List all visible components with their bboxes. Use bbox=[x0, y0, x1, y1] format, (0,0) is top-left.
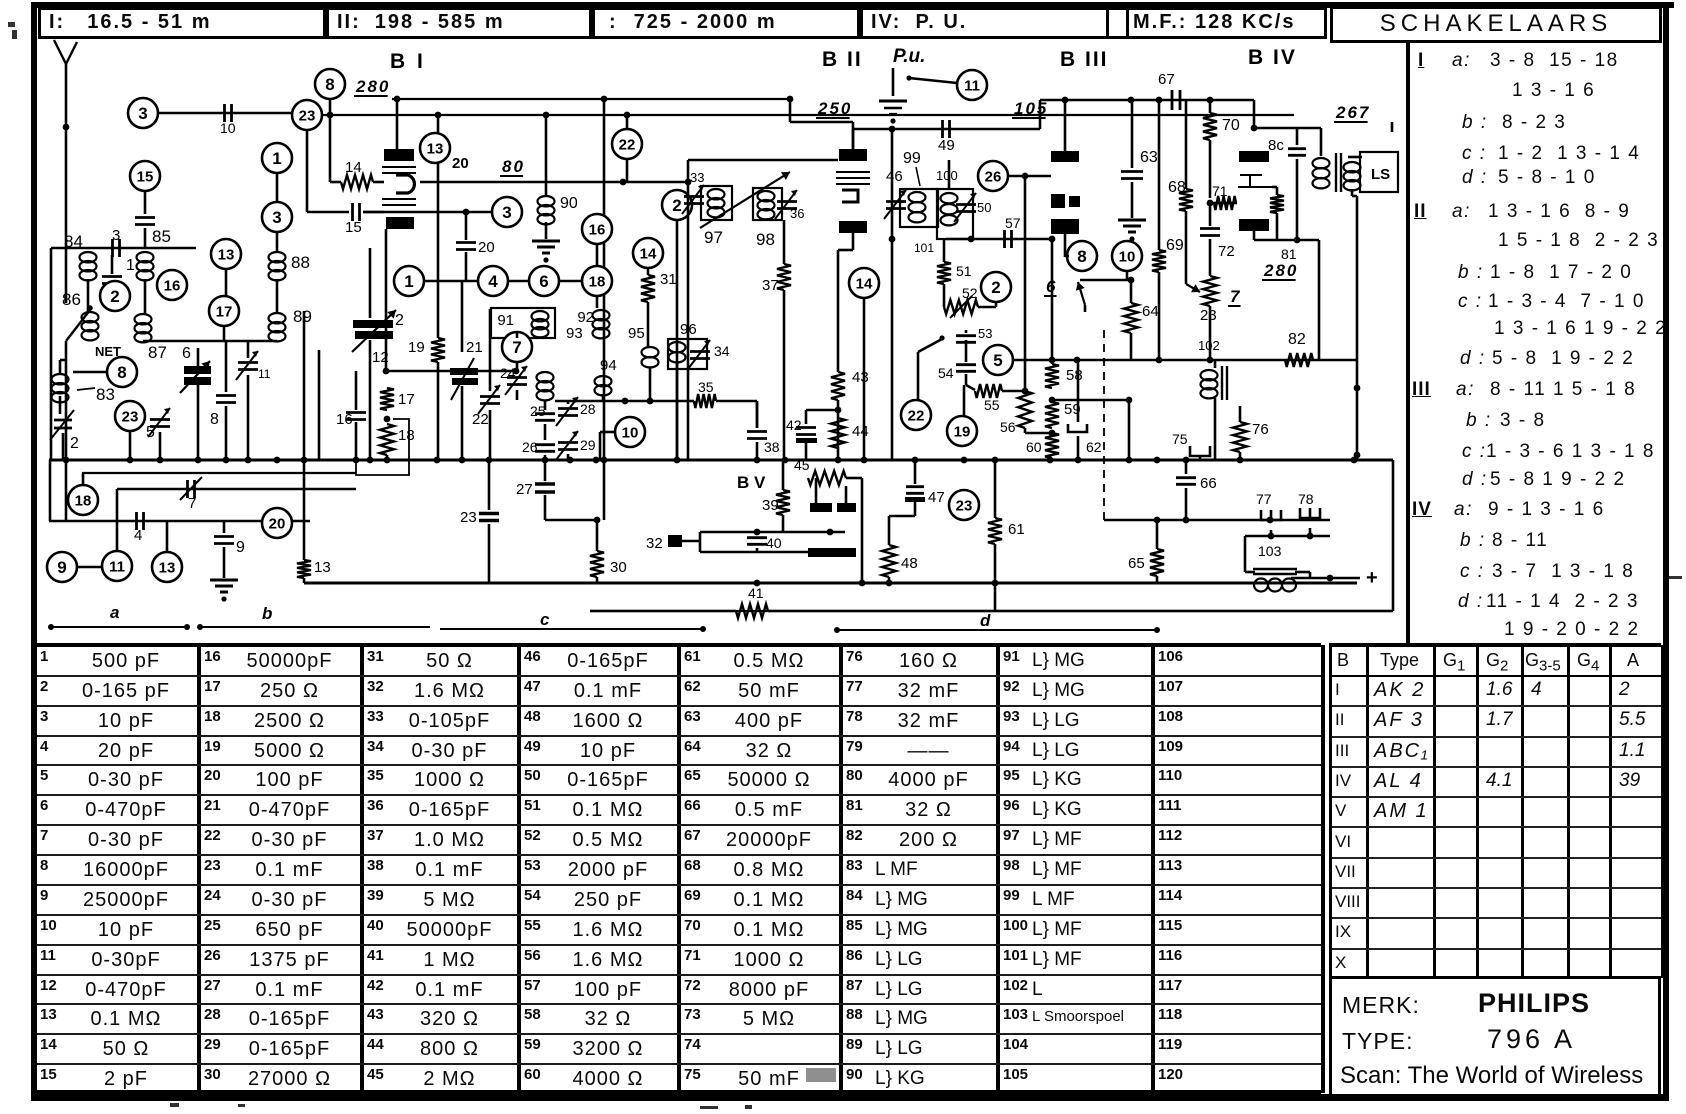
svg-text:87: 87 bbox=[148, 343, 167, 362]
grid riser bbox=[687, 160, 690, 182]
screen drop wire bbox=[891, 129, 894, 460]
resistor 48 bbox=[914, 502, 917, 516]
svg-text:66: 66 bbox=[1200, 475, 1217, 492]
tube I grid lines lower bbox=[382, 198, 416, 200]
node 22b bbox=[901, 400, 931, 430]
svg-text:18: 18 bbox=[398, 427, 415, 444]
capacitor 40 bbox=[747, 536, 767, 539]
screen feed vertical bbox=[603, 99, 606, 520]
tube III anode riser bbox=[1064, 100, 1067, 151]
capacitor 67 bbox=[1171, 90, 1174, 110]
node 18 bbox=[68, 485, 98, 515]
svg-text:21: 21 bbox=[466, 339, 483, 356]
tube IV anode bar bbox=[1239, 151, 1269, 162]
wire column 319 bbox=[318, 350, 321, 460]
svg-text:6: 6 bbox=[182, 345, 191, 362]
resistor 30 bbox=[596, 520, 599, 551]
coil box top wire bbox=[51, 247, 196, 250]
node 13 bbox=[211, 239, 241, 269]
label 267 bbox=[1334, 103, 1370, 122]
capacitor 8 bbox=[225, 341, 228, 392]
resistor 64 bbox=[1130, 280, 1133, 303]
resistor 70 bbox=[1209, 100, 1212, 113]
svg-text:90: 90 bbox=[560, 195, 578, 212]
node 8a bbox=[315, 69, 345, 99]
tube III cathode bar bbox=[1051, 219, 1079, 234]
svg-text:105: 105 bbox=[1014, 99, 1048, 118]
svg-text:18: 18 bbox=[589, 273, 606, 290]
svg-text:13: 13 bbox=[427, 140, 444, 157]
svg-text:19: 19 bbox=[954, 423, 971, 440]
svg-text:16: 16 bbox=[336, 411, 353, 428]
trimmer 33 bbox=[684, 195, 704, 198]
coil 84 bbox=[80, 252, 97, 262]
node 2c bbox=[981, 272, 1011, 302]
output transformer primary bbox=[1313, 158, 1330, 168]
svg-text:62: 62 bbox=[1086, 439, 1102, 455]
trimmers 28 29 bbox=[567, 400, 570, 404]
svg-text:5: 5 bbox=[146, 424, 155, 441]
sub bus 401 bbox=[555, 400, 690, 403]
node 1a bbox=[394, 266, 424, 296]
svg-text:35: 35 bbox=[698, 379, 714, 395]
tube II cathode bbox=[842, 190, 858, 202]
svg-text:45: 45 bbox=[794, 457, 810, 473]
coil 100 bbox=[941, 193, 958, 203]
svg-text:7: 7 bbox=[512, 338, 521, 357]
wire 84-86 bbox=[87, 279, 90, 312]
capacitor 38 bbox=[756, 401, 759, 428]
node 23a bbox=[292, 100, 322, 130]
cap bottom wire bbox=[1245, 535, 1330, 538]
node 15 bbox=[130, 161, 160, 191]
resistor 68 bbox=[1185, 100, 1188, 189]
trimmer box 98 bbox=[753, 188, 782, 220]
capacitor 49 bbox=[941, 120, 944, 138]
rect right lead bbox=[861, 478, 864, 583]
label 7b bbox=[1228, 287, 1241, 306]
svg-text:4: 4 bbox=[134, 527, 142, 544]
capacitor 47 bbox=[914, 460, 917, 484]
svg-text:4: 4 bbox=[488, 272, 498, 291]
tube data table bbox=[1329, 643, 1661, 647]
resistor 58 bbox=[1051, 239, 1054, 364]
wire coil block bottom bbox=[143, 340, 277, 343]
output transformer secondary bbox=[1344, 162, 1361, 172]
node 18a bbox=[582, 266, 612, 296]
coupling rail bbox=[853, 128, 1040, 131]
capacitor 66 bbox=[1185, 460, 1188, 474]
svg-text:22: 22 bbox=[619, 136, 636, 153]
capacitor 7 bbox=[117, 488, 356, 491]
node 3b bbox=[492, 197, 522, 227]
svg-text:16: 16 bbox=[589, 221, 606, 238]
gang line bbox=[700, 172, 790, 228]
svg-text:80: 80 bbox=[502, 157, 525, 176]
resistor 18 bbox=[380, 424, 394, 455]
svg-text:2: 2 bbox=[672, 196, 681, 215]
coil 88 bbox=[269, 252, 286, 262]
node 2 bbox=[100, 281, 130, 311]
svg-text:15: 15 bbox=[137, 168, 154, 185]
svg-text:36: 36 bbox=[790, 206, 804, 221]
trimmer 22 bbox=[489, 309, 492, 391]
wire 280row bbox=[1080, 279, 1131, 282]
bottom distribution wire bbox=[590, 610, 1393, 612]
main chassis bus bbox=[49, 458, 1393, 461]
svg-text:92: 92 bbox=[577, 309, 594, 326]
node 22a bbox=[612, 129, 642, 159]
wire 88-89 bbox=[276, 279, 279, 313]
wire 83 top bbox=[59, 360, 62, 374]
svg-text:13: 13 bbox=[314, 559, 331, 576]
coil 92 bbox=[596, 296, 599, 308]
dashed riser bbox=[1103, 330, 1105, 520]
svg-text:13: 13 bbox=[218, 246, 235, 263]
ground bbox=[210, 579, 238, 582]
svg-text:14: 14 bbox=[345, 159, 362, 176]
resistor 61 bbox=[994, 460, 997, 518]
svg-text:88: 88 bbox=[291, 253, 310, 272]
svg-text:23: 23 bbox=[299, 107, 316, 124]
resistor 76 bbox=[1239, 406, 1242, 422]
svg-text:13: 13 bbox=[159, 559, 176, 576]
svg-text:78: 78 bbox=[1298, 491, 1314, 507]
svg-text:267: 267 bbox=[1335, 103, 1370, 122]
AVC switch bbox=[918, 339, 942, 352]
IF2 box bbox=[937, 189, 973, 239]
svg-text:44: 44 bbox=[852, 423, 869, 440]
tube III leads bbox=[1064, 234, 1067, 257]
node 1 bbox=[262, 143, 292, 173]
resistor 60 bbox=[1045, 433, 1059, 458]
rail dots bbox=[435, 112, 442, 119]
svg-text:43: 43 bbox=[852, 369, 869, 386]
svg-text:97: 97 bbox=[704, 228, 723, 247]
resistor 81 bbox=[1272, 186, 1277, 189]
resistor 82 bbox=[1285, 353, 1313, 367]
svg-text:3: 3 bbox=[138, 104, 147, 123]
wire 19 down bbox=[437, 362, 440, 460]
dimension b bbox=[200, 626, 430, 628]
choke leads bbox=[1244, 536, 1247, 572]
resistor 44 bbox=[831, 418, 845, 448]
node 16 bbox=[157, 270, 187, 300]
volume pot 23 bbox=[1203, 276, 1217, 306]
node 23b bbox=[949, 490, 979, 520]
svg-text:19: 19 bbox=[408, 339, 425, 356]
svg-text:18: 18 bbox=[75, 492, 92, 509]
svg-text:101: 101 bbox=[914, 241, 934, 255]
speaker return bbox=[1351, 189, 1354, 196]
resistor 45b bbox=[808, 471, 846, 485]
label 280b bbox=[1262, 261, 1298, 280]
capacitor 15 bbox=[307, 211, 349, 214]
svg-text:2: 2 bbox=[110, 287, 119, 306]
tube I cathode bar bbox=[386, 217, 414, 229]
coil 83 bbox=[52, 374, 69, 384]
wire 59-60 bbox=[1052, 399, 1129, 402]
dimension c bbox=[440, 628, 703, 630]
svg-text:9: 9 bbox=[236, 539, 245, 556]
trimmer 24 bbox=[516, 362, 519, 371]
supply spur 250 bbox=[789, 99, 792, 122]
svg-text:B V: B V bbox=[737, 473, 766, 492]
svg-text:82: 82 bbox=[1288, 331, 1306, 348]
svg-text:60: 60 bbox=[1026, 439, 1042, 455]
svg-text:99: 99 bbox=[903, 150, 921, 167]
speaker top wire bbox=[1348, 156, 1362, 159]
svg-text:64: 64 bbox=[1142, 303, 1159, 320]
svg-text:50: 50 bbox=[977, 200, 991, 215]
svg-text:14: 14 bbox=[856, 275, 873, 292]
node 3 bbox=[262, 202, 292, 232]
svg-text:10: 10 bbox=[220, 120, 236, 136]
capacitor 42 bbox=[835, 407, 842, 414]
lower bus right half bbox=[304, 582, 1357, 585]
third bus / ground return bbox=[49, 520, 310, 522]
coil 85 bbox=[137, 252, 154, 262]
oscillator grid wire bbox=[386, 370, 516, 373]
tube III anode bar bbox=[1051, 151, 1079, 162]
svg-text:22: 22 bbox=[472, 411, 489, 428]
svg-text:68: 68 bbox=[1168, 179, 1186, 196]
trimmer 5 bbox=[150, 418, 170, 421]
tap arrow 68 bbox=[1186, 284, 1200, 292]
svg-text:17: 17 bbox=[216, 303, 233, 320]
capacitor 9 bbox=[223, 521, 226, 533]
svg-text:10: 10 bbox=[622, 424, 639, 441]
svg-text:23: 23 bbox=[122, 408, 139, 425]
node 20 bbox=[262, 508, 292, 538]
resistor 65 bbox=[1156, 520, 1159, 549]
svg-text:40: 40 bbox=[766, 535, 782, 551]
svg-text:15: 15 bbox=[345, 219, 362, 236]
node 19b bbox=[947, 416, 977, 446]
bus junction dots bbox=[63, 457, 70, 464]
capacitor 53 bbox=[965, 330, 968, 333]
svg-text:61: 61 bbox=[1008, 521, 1025, 538]
svg-text:28: 28 bbox=[580, 401, 596, 417]
svg-text:29: 29 bbox=[580, 437, 596, 453]
svg-text:54: 54 bbox=[938, 365, 954, 381]
outer border frame bbox=[31, 2, 1674, 8]
svg-text:37: 37 bbox=[762, 277, 779, 294]
trimmer 34 bbox=[690, 350, 710, 353]
svg-text:27: 27 bbox=[516, 481, 533, 498]
resistor 56 bbox=[1018, 391, 1032, 428]
capacitor 54 bbox=[956, 363, 976, 366]
wire 68 down bbox=[1185, 211, 1188, 284]
svg-text:2: 2 bbox=[395, 312, 404, 329]
svg-text:94: 94 bbox=[600, 357, 617, 374]
trimmer 36 bbox=[777, 200, 797, 203]
node 17 bbox=[209, 296, 239, 326]
svg-text:B IV: B IV bbox=[1248, 46, 1297, 69]
svg-text:25: 25 bbox=[530, 403, 546, 419]
svg-text:7: 7 bbox=[1230, 287, 1241, 306]
capacitor 4 bbox=[135, 512, 138, 530]
svg-text:9: 9 bbox=[57, 558, 66, 577]
header band boxes bbox=[38, 7, 326, 39]
svg-text:65: 65 bbox=[1128, 555, 1145, 572]
node row wire bbox=[425, 280, 605, 283]
svg-text:P.u.: P.u. bbox=[893, 46, 925, 67]
wire 85-87 bbox=[144, 279, 147, 314]
svg-text:B III: B III bbox=[1060, 48, 1109, 71]
svg-text:11: 11 bbox=[109, 558, 125, 575]
svg-text:32: 32 bbox=[646, 535, 663, 552]
resistor 23v bbox=[1209, 140, 1212, 198]
resistor 69 bbox=[1158, 100, 1161, 250]
resistor 39 bbox=[782, 460, 785, 490]
svg-text:20: 20 bbox=[452, 155, 469, 172]
svg-text:72: 72 bbox=[1218, 243, 1235, 260]
svg-text:103: 103 bbox=[1258, 543, 1282, 559]
svg-text:63: 63 bbox=[1140, 149, 1158, 166]
brand box MERK/TYPE bbox=[1329, 976, 1661, 979]
capacitor 20 bbox=[465, 212, 468, 240]
svg-text:3: 3 bbox=[502, 203, 511, 222]
capacitor 72 bbox=[1209, 203, 1212, 226]
node 16a bbox=[582, 214, 612, 244]
tube IV cathode lead bbox=[1253, 231, 1256, 240]
svg-text:17: 17 bbox=[398, 391, 415, 408]
svg-text:11: 11 bbox=[258, 367, 271, 381]
power bus 520 bbox=[1104, 519, 1330, 521]
resistor 19 bbox=[431, 338, 445, 362]
svg-text:57: 57 bbox=[1005, 215, 1021, 231]
riser x688 down bbox=[687, 182, 690, 460]
svg-text:23: 23 bbox=[460, 509, 477, 526]
grid wire 80 bbox=[420, 181, 688, 184]
rect row wire bbox=[700, 531, 845, 534]
node 10b bbox=[1112, 241, 1142, 271]
svg-text:3: 3 bbox=[272, 208, 281, 227]
wire 611 col bbox=[1392, 460, 1395, 611]
tube IV grid lead bbox=[1210, 202, 1237, 205]
svg-text:d: d bbox=[980, 611, 991, 630]
svg-text:85: 85 bbox=[152, 227, 171, 246]
cathode line bbox=[385, 229, 388, 371]
resistor 52 bbox=[943, 284, 946, 307]
resistor 51 bbox=[943, 239, 946, 262]
svg-text:81: 81 bbox=[1281, 246, 1297, 262]
svg-text:c: c bbox=[540, 610, 550, 629]
node 11 bbox=[102, 551, 132, 581]
svg-text:91: 91 bbox=[497, 312, 514, 329]
svg-text:83: 83 bbox=[96, 385, 115, 404]
capacitor 63 bbox=[1131, 100, 1134, 168]
svg-text:B I: B I bbox=[390, 50, 426, 73]
tube I cathode fork bbox=[396, 175, 414, 193]
svg-text:10: 10 bbox=[1119, 248, 1136, 265]
coil lead bbox=[948, 160, 951, 189]
svg-text:20: 20 bbox=[478, 239, 495, 256]
top rail bbox=[322, 114, 1294, 116]
dimension d bbox=[837, 629, 1157, 631]
capacitor 23 bbox=[488, 460, 491, 510]
svg-text:+: + bbox=[1366, 567, 1378, 589]
trimmer 2 bbox=[59, 396, 62, 414]
svg-text:26: 26 bbox=[985, 168, 1002, 185]
svg-text:26: 26 bbox=[522, 439, 538, 455]
rectifier filament bar bbox=[808, 548, 856, 557]
tube II grid lines bbox=[836, 171, 870, 173]
svg-text:8: 8 bbox=[210, 411, 219, 428]
anode rail 280 bbox=[392, 98, 790, 100]
aerial switch bbox=[66, 310, 90, 341]
svg-text:51: 51 bbox=[956, 263, 972, 279]
svg-text:47: 47 bbox=[928, 489, 945, 506]
coil 96 bbox=[669, 342, 686, 352]
node 14c bbox=[849, 268, 879, 298]
svg-text:7: 7 bbox=[188, 495, 196, 512]
svg-text:75: 75 bbox=[1172, 431, 1188, 447]
tube II bottom bar bbox=[839, 221, 867, 233]
node 14b bbox=[633, 238, 663, 268]
pickup ground bbox=[892, 68, 895, 96]
resistor 17 bbox=[380, 388, 394, 410]
output transformer core bbox=[1335, 153, 1337, 192]
svg-text:34: 34 bbox=[714, 343, 730, 359]
svg-text:48: 48 bbox=[901, 555, 918, 572]
tube IV grid lines bbox=[1240, 174, 1262, 176]
IF1 box bbox=[900, 189, 938, 227]
node 10a bbox=[615, 417, 645, 447]
coil 89 bbox=[269, 313, 286, 323]
svg-text:5: 5 bbox=[993, 351, 1002, 370]
svg-text:LS: LS bbox=[1371, 166, 1390, 183]
svg-text:76: 76 bbox=[1252, 421, 1269, 438]
tuning capacitor 6 bbox=[184, 366, 211, 374]
node 13a bbox=[420, 133, 450, 163]
svg-text:8: 8 bbox=[325, 75, 334, 94]
svg-text:250: 250 bbox=[817, 99, 852, 118]
svg-text:8: 8 bbox=[117, 363, 126, 382]
svg-text:71: 71 bbox=[1212, 183, 1228, 199]
supply label 105 bbox=[1012, 99, 1048, 118]
wire y583 junctions bbox=[754, 580, 761, 587]
svg-text:b: b bbox=[262, 604, 272, 623]
HT rail 105 bbox=[1040, 99, 1254, 102]
resistor 13 bbox=[297, 560, 311, 578]
column 438 bbox=[437, 115, 440, 133]
svg-text:89: 89 bbox=[293, 307, 312, 326]
coil 98 bbox=[758, 191, 775, 201]
coil 87 bbox=[135, 314, 152, 324]
svg-text:38: 38 bbox=[764, 439, 780, 455]
svg-text:2: 2 bbox=[991, 278, 1000, 297]
node 9 bbox=[47, 552, 77, 582]
grid hold wire bbox=[1024, 176, 1027, 388]
coil 96 box bbox=[668, 339, 707, 369]
svg-text:55: 55 bbox=[984, 397, 1000, 413]
antenna bbox=[54, 40, 77, 64]
coil 90 bbox=[538, 196, 555, 206]
svg-text:22: 22 bbox=[908, 407, 925, 424]
svg-text:3: 3 bbox=[112, 227, 120, 244]
resistor 71 bbox=[1214, 196, 1236, 210]
capacitor 3 bbox=[111, 239, 114, 257]
svg-text:31: 31 bbox=[660, 271, 677, 288]
capacitor 57 bbox=[946, 238, 1052, 241]
rectifier plates stubs bbox=[815, 478, 818, 503]
svg-text:102: 102 bbox=[1198, 338, 1220, 353]
node 3a bbox=[128, 98, 158, 128]
svg-text:67: 67 bbox=[1158, 71, 1175, 88]
anode wire BIV bbox=[1253, 100, 1256, 128]
